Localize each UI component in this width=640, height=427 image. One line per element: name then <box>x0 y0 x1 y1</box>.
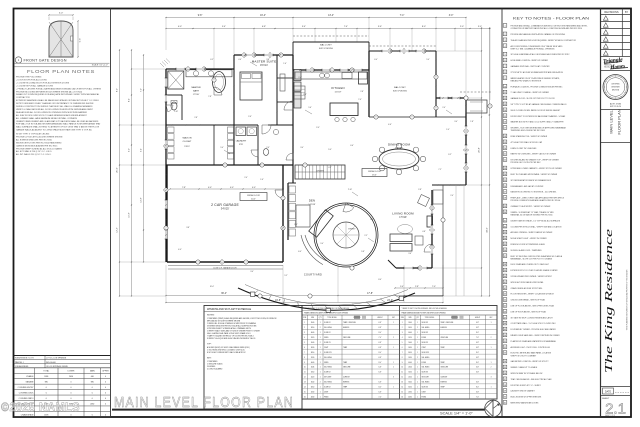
svg-text:7'-8": 7'-8" <box>182 187 186 189</box>
svg-text:MASTER SUITE: MASTER SUITE <box>252 60 277 64</box>
svg-text:SLDR OX: SLDR OX <box>324 342 331 344</box>
svg-text:FIREPLACE - DIRECT VENT GAS AP: FIREPLACE - DIRECT VENT GAS APPLIANCE PE… <box>511 197 565 200</box>
svg-text:CARBON MONOXIDE ALARMS PER IRC: CARBON MONOXIDE ALARMS PER IRC R315 <box>16 144 57 147</box>
svg-text:FINISH FLOOR: FINISH FLOOR <box>247 195 260 197</box>
svg-text:8'-0": 8'-0" <box>379 362 382 364</box>
svg-text:5'-8": 5'-8" <box>361 251 365 253</box>
svg-text:UPPER: UPPER <box>102 371 109 373</box>
svg-text:DISHWASHER - AIR GAP AT COUNTE: DISHWASHER - AIR GAP AT COUNTER <box>511 185 544 188</box>
svg-text:7: 7 <box>305 165 306 167</box>
svg-text:12: 12 <box>401 377 403 379</box>
svg-text:1678: 1678 <box>44 414 48 416</box>
svg-text:PROVIDE COMBUSTION AIR AND HEA: PROVIDE COMBUSTION AIR AND HEARTH PER IR… <box>511 199 561 202</box>
svg-text:8050: 8050 <box>408 352 412 354</box>
svg-text:2: 2 <box>166 228 167 230</box>
svg-text:10: 10 <box>401 367 403 369</box>
svg-text:6'-8": 6'-8" <box>476 382 479 384</box>
svg-text:STONE VENEER PER OWNER - VERIF: STONE VENEER PER OWNER - VERIFY EXTENT <box>511 276 553 278</box>
svg-text:CSMT: CSMT <box>422 391 426 393</box>
svg-text:2'-4": 2'-4" <box>450 195 454 197</box>
svg-text:4'-6": 4'-6" <box>388 124 392 126</box>
svg-text:6'-8": 6'-8" <box>476 342 479 344</box>
svg-text:2640: 2640 <box>311 322 315 324</box>
svg-text:2'-8": 2'-8" <box>194 117 198 119</box>
svg-text:PROVIDE AND INSTALL COMBINATIO: PROVIDE AND INSTALL COMBINATION SMOKE/CO… <box>511 25 588 28</box>
svg-text:MIRRORED WARDROBE DOORS: MIRRORED WARDROBE DOORS <box>511 401 540 404</box>
svg-text:KEEP 3'-0" MIN. CLEARANCE FROM: KEEP 3'-0" MIN. CLEARANCE FROM ALL OPENI… <box>511 47 556 50</box>
svg-text:0: 0 <box>92 387 93 389</box>
svg-text:0: 0 <box>70 398 71 400</box>
svg-text:CSMT: CSMT <box>324 347 328 349</box>
svg-text:49'-6": 49'-6" <box>372 174 377 176</box>
svg-text:11: 11 <box>401 372 403 374</box>
svg-text:HDR HT: HDR HT <box>475 317 480 319</box>
svg-text:4030: 4030 <box>311 396 315 398</box>
svg-text:GARAGE: GARAGE <box>26 381 35 384</box>
svg-text:FOR WALL TILE IN TUB AND SHOWE: FOR WALL TILE IN TUB AND SHOWER AREAS AN… <box>16 123 101 126</box>
svg-text:4'-0": 4'-0" <box>208 187 212 189</box>
svg-text:26: 26 <box>504 186 506 188</box>
svg-text:0: 0 <box>46 387 47 389</box>
svg-text:DESIGNER: DESIGNER <box>611 87 620 89</box>
svg-text:BUILT UP DECKING OVER SLOPED S: BUILT UP DECKING OVER SLOPED SHEATHING W… <box>511 255 563 258</box>
svg-text:3040: 3040 <box>311 382 315 384</box>
svg-text:8'-0": 8'-0" <box>476 362 479 364</box>
svg-text:VERIFY W/ UTILITY COMPANY: VERIFY W/ UTILITY COMPANY <box>511 354 538 357</box>
svg-text:STAIRS - 16 RISERS AT 7.5" MAX: STAIRS - 16 RISERS AT 7.5" MAX, TREADS 1… <box>511 211 555 214</box>
svg-text:CLOSET: CLOSET <box>183 141 192 143</box>
svg-text:980: 980 <box>45 382 48 384</box>
svg-text:SGL HUNG: SGL HUNG <box>324 367 333 369</box>
svg-text:8'-0": 8'-0" <box>476 387 479 389</box>
svg-text:2030: 2030 <box>311 391 315 393</box>
svg-text:9: 9 <box>214 80 215 82</box>
svg-text:LIVABLE: LIVABLE <box>26 375 34 378</box>
svg-text:OBSCURE: OBSCURE <box>343 337 350 339</box>
svg-text:LIVING ROOM: LIVING ROOM <box>392 212 414 216</box>
svg-text:8'-4": 8'-4" <box>378 279 382 281</box>
svg-text:54: 54 <box>504 361 506 363</box>
svg-text:3 EGRESS: 3 EGRESS <box>207 366 216 368</box>
svg-text:WALL SURFACES SHALL EXTEND TO: WALL SURFACES SHALL EXTEND TO A HEIGHT O… <box>16 126 100 129</box>
svg-text:59: 59 <box>504 391 506 393</box>
svg-text:SLDR XOX: SLDR XOX <box>422 352 430 354</box>
svg-text:2.1: 2.1 <box>605 401 626 418</box>
svg-text:SLDR XO: SLDR XO <box>324 387 331 389</box>
svg-text:0: 0 <box>105 414 106 416</box>
svg-text:DURING CONSTRUCTION VERSUS THA: DURING CONSTRUCTION VERSUS THAT BUILT. A… <box>16 105 93 108</box>
svg-text:6'-8": 6'-8" <box>262 26 266 28</box>
svg-text:TEMP: TEMP <box>343 387 347 389</box>
svg-text:5: 5 <box>225 165 226 167</box>
svg-text:TRAY CEILING ABOVE - SEE ELECT: TRAY CEILING ABOVE - SEE ELECTRICAL PLAN <box>511 378 553 381</box>
svg-text:8'-0": 8'-0" <box>476 352 479 354</box>
svg-text:+ LOCKSETS FOR ALL GARAGE DOOR: + LOCKSETS FOR ALL GARAGE DOORS <box>16 84 54 87</box>
svg-text:10: 10 <box>504 86 506 88</box>
svg-text:LINEN CLOSET W/ 5 SHELVES: LINEN CLOSET W/ 5 SHELVES <box>511 148 538 150</box>
svg-text:3: 3 <box>504 40 505 42</box>
svg-text:22: 22 <box>504 160 506 162</box>
svg-text:9: 9 <box>504 78 505 80</box>
svg-text:CEMENT FIBER-CEMENT AND GLASS: CEMENT FIBER-CEMENT AND GLASS MAT GYP. B… <box>16 120 99 123</box>
svg-text:5: 5 <box>504 54 505 56</box>
svg-text:7'-0": 7'-0" <box>379 337 382 339</box>
svg-text:KITCHEN ISLAND W/ GRANITE TOP: KITCHEN ISLAND W/ GRANITE TOP - VERIFY W… <box>511 159 560 162</box>
svg-text:COVERED PATIO: COVERED PATIO <box>19 397 34 400</box>
svg-text:LINE OF ROOF ABOVE - SEE ROOF: LINE OF ROOF ABOVE - SEE ROOF PLAN <box>511 310 547 313</box>
svg-text:HDR HT: HDR HT <box>377 317 382 319</box>
svg-text:8'-4": 8'-4" <box>129 98 131 102</box>
svg-text:8: 8 <box>436 77 437 79</box>
svg-text:6'-8": 6'-8" <box>379 357 382 359</box>
svg-text:CSMT: CSMT <box>422 347 426 349</box>
svg-text:5/8" TYPE 'X' GYP BD AT GARAGE: 5/8" TYPE 'X' GYP BD AT GARAGE CEILING A… <box>511 103 568 106</box>
svg-text:TYP:: TYP: <box>207 344 212 346</box>
svg-text:2'-10": 2'-10" <box>348 189 353 191</box>
svg-text:UNDER STAIR STORAGE - 1/2" GYP: UNDER STAIR STORAGE - 1/2" GYP BD AT ALL… <box>511 219 561 222</box>
svg-text:38: 38 <box>504 264 506 266</box>
svg-text:SIZE: SIZE <box>311 317 314 319</box>
svg-text:0: 0 <box>70 382 71 384</box>
svg-text:LOT 15, LOS SPRINGS: LOT 15, LOS SPRINGS <box>46 358 67 360</box>
svg-text:47: 47 <box>504 317 506 319</box>
svg-text:36'-4": 36'-4" <box>221 293 227 295</box>
svg-text:©2025 NAMLS: ©2025 NAMLS <box>1 402 80 414</box>
svg-text:SGL HUNG: SGL HUNG <box>422 382 431 384</box>
svg-text:PROVIDE THE FOLLOWING:: PROVIDE THE FOLLOWING: <box>16 77 42 79</box>
svg-text:4'-8": 4'-8" <box>422 231 426 233</box>
svg-text:60: 60 <box>504 397 506 399</box>
svg-text:14: 14 <box>304 387 306 389</box>
svg-text:PARCEL #: PARCEL # <box>15 361 25 364</box>
svg-text:2020: 2020 <box>311 377 315 379</box>
svg-text:0: 0 <box>92 414 93 416</box>
svg-text:10'-0": 10'-0" <box>210 286 215 288</box>
svg-text:BUILT-IN DESK W/ UPPER SHELVES: BUILT-IN DESK W/ UPPER SHELVES <box>511 397 542 399</box>
svg-text:PROVIDE 22"X30" ATTIC ACCESS W: PROVIDE 22"X30" ATTIC ACCESS WHERE SHOWN <box>16 135 63 138</box>
svg-text:BALCONY: BALCONY <box>394 86 406 89</box>
svg-text:5'-4": 5'-4" <box>426 59 430 61</box>
svg-text:4'-0": 4'-0" <box>178 26 182 28</box>
svg-text:0: 0 <box>92 398 93 400</box>
svg-text:5'-6": 5'-6" <box>308 107 312 109</box>
svg-text:8'-0": 8'-0" <box>422 26 426 28</box>
svg-text:6050: 6050 <box>311 387 315 389</box>
svg-text:The King Residence: The King Residence <box>604 228 615 373</box>
svg-text:4'-0": 4'-0" <box>178 249 182 251</box>
svg-text:W/ 5/8" TYPE 'X' GYP BD AT CEI: W/ 5/8" TYPE 'X' GYP BD AT CEILING <box>16 133 50 136</box>
svg-text:COVERED ENTRY: COVERED ENTRY <box>18 387 35 389</box>
svg-text:8050: 8050 <box>311 352 315 354</box>
svg-text:3'-8": 3'-8" <box>266 59 270 61</box>
svg-text:11'X17': 11'X17' <box>335 92 343 94</box>
svg-text:DROPPED SOFFIT AT 7'-0" - VERI: DROPPED SOFFIT AT 7'-0" - VERIFY <box>511 384 542 387</box>
svg-text:THE AIR CHANGES PER HOUR REQUI: THE AIR CHANGES PER HOUR REQUIRED. VERIF… <box>511 39 577 42</box>
svg-text:FOUNTAIN BY OWNER - PROVIDE EL: FOUNTAIN BY OWNER - PROVIDE ELEC AND WAT… <box>511 328 557 331</box>
svg-text:7'-8": 7'-8" <box>208 96 212 98</box>
svg-text:SKYLIGHT: SKYLIGHT <box>324 377 332 379</box>
svg-text:15: 15 <box>504 116 506 118</box>
svg-text:6'-8": 6'-8" <box>379 391 382 393</box>
svg-text:29: 29 <box>504 206 506 208</box>
svg-text:SLDR XO: SLDR XO <box>422 387 429 389</box>
svg-text:SLDR XO: SLDR XO <box>422 322 429 324</box>
svg-text:1'-4": 1'-4" <box>446 129 450 131</box>
svg-text:6'-8": 6'-8" <box>476 357 479 359</box>
svg-text:3050: 3050 <box>311 327 315 329</box>
svg-text:SEWER CLEANOUT TO GRADE: SEWER CLEANOUT TO GRADE <box>511 366 538 369</box>
svg-text:42: 42 <box>504 288 506 290</box>
svg-text:6'-8": 6'-8" <box>476 347 479 349</box>
svg-text:36" HIGH GUARDRAIL AT ALL DECK: 36" HIGH GUARDRAIL AT ALL DECKS AND BALC… <box>511 53 570 56</box>
svg-text:ALL EXT. WALLS 2X6 @ 16" O.C.: ALL EXT. WALLS 2X6 @ 16" O.C. U.N.O. <box>16 150 52 153</box>
svg-text:8'-0": 8'-0" <box>379 352 382 354</box>
svg-text:GARBAGE DISPOSAL - SWITCH AT C: GARBAGE DISPOSAL - SWITCH AT COUNTER <box>511 65 551 68</box>
svg-text:6'-8": 6'-8" <box>379 342 382 344</box>
svg-text:7'-0": 7'-0" <box>476 396 479 398</box>
svg-text:2030: 2030 <box>408 391 412 393</box>
svg-text:KEY: KEY <box>490 317 493 319</box>
svg-text:50: 50 <box>504 335 506 337</box>
svg-text:3096: 3096 <box>44 376 48 378</box>
svg-text:52: 52 <box>504 347 506 349</box>
svg-text:3040: 3040 <box>408 382 412 384</box>
svg-text:DECK DRAIN AND OVERFLOW TO DAY: DECK DRAIN AND OVERFLOW TO DAYLIGHT <box>511 263 550 266</box>
svg-text:DATE: DATE <box>605 390 612 393</box>
svg-text:SGL HUNG: SGL HUNG <box>422 327 431 329</box>
svg-text:ALL LUMBER SHALL HAVE MAXIMUM: ALL LUMBER SHALL HAVE MAXIMUM METAL DRYW… <box>16 117 78 120</box>
svg-text:4'-0": 4'-0" <box>252 187 256 189</box>
svg-text:3'-4": 3'-4" <box>250 271 254 273</box>
svg-text:8'-0": 8'-0" <box>476 332 479 334</box>
svg-text:13: 13 <box>504 104 506 106</box>
svg-text:36" GATE W/ SELF CLOSING HINGE: 36" GATE W/ SELF CLOSING HINGES AND LATC… <box>511 316 554 319</box>
svg-text:3'-8": 3'-8" <box>186 227 190 229</box>
svg-text:TEMP: TEMP <box>343 362 347 364</box>
svg-text:ALL FLAT ROOFS OVER WOOD TO HA: ALL FLAT ROOFS OVER WOOD TO HAVE MINIMUM… <box>16 114 87 117</box>
svg-text:6'-8": 6'-8" <box>379 347 382 349</box>
svg-text:14: 14 <box>401 387 403 389</box>
svg-text:21: 21 <box>504 154 506 156</box>
svg-text:6'-8": 6'-8" <box>476 322 479 324</box>
svg-text:WROUGHT IRON RAILING PER DETAI: WROUGHT IRON RAILING PER DETAIL <box>511 281 544 284</box>
svg-text:17'X19': 17'X19' <box>399 217 407 219</box>
svg-text:5050: 5050 <box>311 372 315 374</box>
svg-text:PLANTER W/ DRAIN AND WATERPROO: PLANTER W/ DRAIN AND WATERPROOF MEMBRANE <box>511 340 557 343</box>
svg-text:FRENCH DOORS W/ TEMPERED GLASS: FRENCH DOORS W/ TEMPERED GLASS <box>511 243 546 246</box>
svg-text:SELF CLOSING 20 MIN. RATED DOO: SELF CLOSING 20 MIN. RATED DOOR W/ SMOKE… <box>511 109 562 112</box>
svg-text:6040: 6040 <box>311 332 315 334</box>
svg-text:2646: 2646 <box>311 367 315 369</box>
svg-text:51: 51 <box>504 341 506 343</box>
svg-text:16 RISERS: 16 RISERS <box>316 170 324 172</box>
svg-text:TEMP: TEMP <box>343 347 347 349</box>
svg-text:2482: 2482 <box>90 403 94 405</box>
svg-text:11: 11 <box>304 372 306 374</box>
svg-text:1: 1 <box>504 26 505 28</box>
svg-text:7'-4": 7'-4" <box>400 15 405 17</box>
svg-text:4030: 4030 <box>408 396 412 398</box>
svg-text:COLUMN PER STRUCTURAL - VERIFY: COLUMN PER STRUCTURAL - VERIFY SIZE AND … <box>511 225 562 228</box>
svg-text:3030: 3030 <box>408 347 412 349</box>
svg-text:KEY: KEY <box>392 317 395 319</box>
svg-text:EXP. 12-31-26: EXP. 12-31-26 <box>610 106 621 108</box>
svg-text:COURTYARD WALL - 5'-0" HIGH ST: COURTYARD WALL - 5'-0" HIGH STUCCO OVER … <box>511 322 557 325</box>
svg-text:6'-2": 6'-2" <box>210 59 214 61</box>
svg-text:NOTES:: NOTES: <box>207 315 215 317</box>
svg-text:2'-0": 2'-0" <box>442 107 446 109</box>
svg-text:+ LOCKSETS & DEAD BOLTS FOR AL: + LOCKSETS & DEAD BOLTS FOR ALL EXTERIOR… <box>16 81 70 84</box>
svg-text:0: 0 <box>105 387 106 389</box>
svg-text:SHOWER - TILE OVER MORTAR BED: SHOWER - TILE OVER MORTAR BED W/ APPROVE… <box>511 127 567 130</box>
svg-text:TEMP / OBSCURE: TEMP / OBSCURE <box>441 322 454 324</box>
svg-text:4'-0": 4'-0" <box>238 59 242 61</box>
svg-text:36" REFRIGERATOR SPACE W/ ICEM: 36" REFRIGERATOR SPACE W/ ICEMAKER BOX <box>511 179 552 182</box>
svg-text:2656: 2656 <box>69 376 73 378</box>
svg-text:13: 13 <box>401 382 403 384</box>
svg-text:3'-0": 3'-0" <box>300 147 304 149</box>
svg-text:SGL HUNG: SGL HUNG <box>324 327 333 329</box>
svg-text:SLDR XO: SLDR XO <box>422 332 429 334</box>
svg-text:2030: 2030 <box>408 357 412 359</box>
svg-text:16: 16 <box>304 396 306 398</box>
svg-text:1 TEMPERED: 1 TEMPERED <box>207 361 218 363</box>
svg-text:EGRESS: EGRESS <box>441 382 447 384</box>
svg-text:SHEET 2 OF 8: SHEET 2 OF 8 <box>605 415 615 417</box>
svg-text:GARAGE FLOOR - SLOPE 1/8" PER: GARAGE FLOOR - SLOPE 1/8" PER FOOT TO DO… <box>511 97 556 100</box>
svg-text:3: 3 <box>281 55 282 57</box>
svg-text:MEMBRANE - SLOPE 1/4" PER FOOT: MEMBRANE - SLOPE 1/4" PER FOOT TO DRAINS <box>511 257 553 260</box>
svg-text:17: 17 <box>504 128 506 130</box>
svg-text:2020: 2020 <box>311 337 315 339</box>
svg-text:10'-8": 10'-8" <box>129 212 131 217</box>
svg-text:EGRESS: EGRESS <box>343 382 349 384</box>
svg-text:6040: 6040 <box>408 332 412 334</box>
svg-text:FLOOR REGISTER - VERIFY LOCATI: FLOOR REGISTER - VERIFY LOCATIONS W/ MEC… <box>511 293 555 296</box>
svg-text:2'-0": 2'-0" <box>460 26 464 28</box>
svg-text:31: 31 <box>504 220 506 222</box>
svg-text:28: 28 <box>504 198 506 200</box>
svg-text:WINDOW AND SKYLIGHT SCHEDULE: WINDOW AND SKYLIGHT SCHEDULE <box>207 308 251 311</box>
svg-text:0: 0 <box>105 382 106 384</box>
svg-text:6'-8": 6'-8" <box>476 391 479 393</box>
svg-text:9'-6": 9'-6" <box>370 219 374 221</box>
svg-text:7'-0": 7'-0" <box>476 337 479 339</box>
svg-text:12'-4": 12'-4" <box>117 227 119 232</box>
svg-text:302-00-000: 302-00-000 <box>46 362 56 364</box>
svg-text:4040: 4040 <box>311 362 315 364</box>
svg-text:EXTERIOR SHEATHING SHALL BE NA: EXTERIOR SHEATHING SHALL BE NAILED AS DE… <box>16 99 100 102</box>
svg-text:3'-2": 3'-2" <box>448 154 452 156</box>
svg-text:4: 4 <box>504 46 505 48</box>
svg-text:BALCONY: BALCONY <box>320 43 332 46</box>
svg-text:17'-8": 17'-8" <box>367 293 373 295</box>
svg-text:9'X13': 9'X13' <box>184 146 190 148</box>
svg-text:DRYER VENT TO EXTERIOR W/ BACK: DRYER VENT TO EXTERIOR W/ BACKDRAFT DAMP… <box>511 115 566 118</box>
svg-text:3'-0": 3'-0" <box>294 224 298 226</box>
svg-text:5'-4": 5'-4" <box>222 26 226 28</box>
svg-text:25: 25 <box>504 180 506 182</box>
svg-text:2020: 2020 <box>408 377 412 379</box>
svg-text:3: 3 <box>490 106 491 108</box>
svg-text:BUILT UP DECKING: BUILT UP DECKING <box>393 91 408 93</box>
svg-text:5050: 5050 <box>408 372 412 374</box>
svg-text:BY: BY <box>625 12 629 14</box>
svg-text:2640: 2640 <box>408 322 412 324</box>
svg-text:49: 49 <box>504 329 506 331</box>
svg-text:SHEAR CUT DOWN REQUIRED FOR AD: SHEAR CUT DOWN REQUIRED FOR ADEQUATE RET… <box>16 93 100 96</box>
svg-text:6: 6 <box>504 60 505 62</box>
svg-text:CURB MT: CURB MT <box>441 377 448 379</box>
svg-text:4'-0": 4'-0" <box>230 187 234 189</box>
svg-text:57: 57 <box>504 379 506 381</box>
svg-text:EXTERIOR STUCCO OVER 2 LAYERS: EXTERIOR STUCCO OVER 2 LAYERS GRADE D PA… <box>511 269 559 272</box>
svg-text:2'-8": 2'-8" <box>418 189 422 191</box>
svg-text:9'X9': 9'X9' <box>239 144 244 146</box>
svg-text:11: 11 <box>504 92 506 94</box>
svg-text:ADDRESS LIGHT - PHOTOCELL CONT: ADDRESS LIGHT - PHOTOCELL CONTROLLED <box>511 346 551 349</box>
svg-text:5'-4": 5'-4" <box>141 148 143 152</box>
svg-text:15: 15 <box>304 391 306 393</box>
svg-text:VERIFY & CHALK AROUND ALL DOOR: VERIFY & CHALK AROUND ALL DOOR & WINDOW … <box>16 108 94 111</box>
svg-text:WATER HEATER ON 18" PLATFORM W: WATER HEATER ON 18" PLATFORM W/ SEISMIC … <box>511 77 561 80</box>
svg-text:SLDR OX: SLDR OX <box>422 342 429 344</box>
svg-text:40'-0": 40'-0" <box>251 198 256 200</box>
svg-text:ENTRY: ENTRY <box>348 229 356 231</box>
svg-text:17'X10': 17'X10' <box>193 94 200 96</box>
svg-text:AIR CONDITIONING CONDENSERS ON: AIR CONDITIONING CONDENSERS ON 4" PAD AT… <box>511 45 564 48</box>
svg-text:14: 14 <box>504 110 506 112</box>
svg-text:1'-6": 1'-6" <box>283 63 287 65</box>
svg-text:33: 33 <box>504 232 506 234</box>
svg-text:3'-0": 3'-0" <box>449 15 454 17</box>
svg-text:6'-6": 6'-6" <box>350 145 354 147</box>
svg-text:FREE STANDING TUB - VERIFY W/: FREE STANDING TUB - VERIFY W/ OWNER <box>511 135 548 138</box>
svg-text:SCALE 1/4" = 1'-0": SCALE 1/4" = 1'-0" <box>440 410 473 415</box>
svg-text:1'-8": 1'-8" <box>470 121 474 123</box>
svg-text:ELECTRIC METER AND MAIN PANEL: ELECTRIC METER AND MAIN PANEL LOCATION <box>511 352 552 355</box>
svg-text:20'-8": 20'-8" <box>479 147 481 153</box>
svg-text:PROVIDE BLOCKING BETWEEN STUDS: PROVIDE BLOCKING BETWEEN STUDS WHERE SHO… <box>16 90 82 93</box>
svg-text:4040: 4040 <box>408 362 412 364</box>
svg-text:HOSE BIBB LOCATION - VERIFY W/: HOSE BIBB LOCATION - VERIFY W/ OWNER <box>511 59 549 62</box>
svg-text:PROVIDE GFCI OUTLETS PER NEC: PROVIDE GFCI OUTLETS PER NEC <box>511 162 542 164</box>
svg-text:WASHER BOX W/ HOT AND COLD SUP: WASHER BOX W/ HOT AND COLD SUPPLY AND 2"… <box>511 121 565 124</box>
svg-text:7'-4": 7'-4" <box>358 99 362 101</box>
svg-text:20: 20 <box>504 148 506 150</box>
svg-text:5'-0": 5'-0" <box>220 147 224 149</box>
svg-text:6'-0": 6'-0" <box>129 148 131 152</box>
svg-text:EGRESS: EGRESS <box>441 327 447 329</box>
svg-text:BUILT UP DECKING: BUILT UP DECKING <box>319 48 334 50</box>
svg-text:5'-6": 5'-6" <box>80 38 82 43</box>
svg-text:SGL HUNG: SGL HUNG <box>324 382 333 384</box>
svg-text:34: 34 <box>504 238 506 240</box>
svg-text:8'-0": 8'-0" <box>379 332 382 334</box>
svg-text:SEAL AROUND ALL DOOR & WINDOW: SEAL AROUND ALL DOOR & WINDOW OPENINGS W… <box>16 111 88 114</box>
svg-text:P.O. BOX 1510: P.O. BOX 1510 <box>604 62 614 64</box>
svg-text:SMOKE DETECTORS PER IRC R314 H: SMOKE DETECTORS PER IRC R314 HARDWIRED <box>16 141 62 144</box>
svg-text:TYPE / MODEL: TYPE / MODEL <box>425 317 435 319</box>
svg-text:13'-4": 13'-4" <box>328 15 334 17</box>
svg-text:SLDR XO: SLDR XO <box>324 322 331 324</box>
svg-text:PROVIDE MECHANICAL VENTILATION: PROVIDE MECHANICAL VENTILATION CAPABLE O… <box>511 33 566 36</box>
svg-text:7'-0": 7'-0" <box>379 396 382 398</box>
svg-text:16'X8' O.H. GARAGE DOOR: 16'X8' O.H. GARAGE DOOR <box>213 266 237 269</box>
svg-text:SIZE: SIZE <box>408 317 411 319</box>
svg-text:TOTAL: TOTAL <box>43 370 49 373</box>
svg-text:2: 2 <box>504 34 505 36</box>
